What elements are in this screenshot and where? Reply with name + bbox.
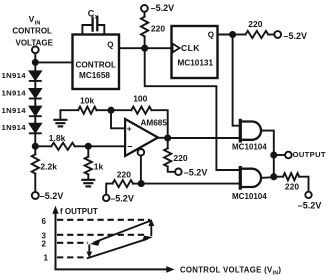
resistor R 220 MC10131 pullup bbox=[233, 31, 275, 38]
svg-text:CONTROL: CONTROL bbox=[12, 27, 52, 36]
label 220 Qbar pulldown bbox=[117, 170, 131, 180]
node output junction bbox=[271, 152, 276, 157]
wire output junction down to lower gate output junction bbox=[273, 155, 275, 177]
label -5.2V op-amp pulldown bbox=[184, 168, 208, 178]
label -5.2V bottom right bbox=[298, 200, 322, 210]
terminal OUTPUT bbox=[285, 152, 292, 159]
svg-text:f OUTPUT: f OUTPUT bbox=[60, 207, 98, 216]
graph x-axis arrowhead bbox=[166, 266, 174, 273]
label VIN bbox=[29, 14, 41, 26]
graph hysteresis right vertical bbox=[150, 223, 152, 237]
svg-text:–5.2V: –5.2V bbox=[151, 3, 175, 13]
node op-amp output junction bbox=[165, 135, 170, 140]
resistor R 2.2k bbox=[32, 146, 39, 192]
wire diode chain bottom to lower junction bbox=[34, 133, 36, 146]
AND gate U5 MC10104 lower bbox=[240, 168, 261, 189]
label CONTROL VOLTAGE input bbox=[12, 27, 53, 48]
label Cx bbox=[88, 8, 99, 20]
svg-text:CLK: CLK bbox=[181, 43, 200, 53]
node 1.8k / 1k / minus-input junction bbox=[86, 144, 91, 149]
svg-text:OUTPUT: OUTPUT bbox=[293, 150, 326, 159]
wire 10k left end down to ground bbox=[60, 110, 78, 119]
ground below 1k bbox=[82, 180, 94, 187]
diode D3 1N914 bbox=[30, 107, 41, 124]
wire VIN junction down to diode chain bbox=[34, 62, 36, 71]
graph dashed level 2 bbox=[57, 242, 88, 244]
resistor R 220 op-amp output pulldown bbox=[164, 138, 175, 172]
diode D4 1N914 bbox=[30, 124, 41, 134]
node CLK junction bbox=[142, 46, 147, 51]
svg-text:220: 220 bbox=[117, 170, 131, 180]
resistor R 220 gate output pulldown bbox=[274, 173, 309, 192]
label -5.2V Qbar pulldown bbox=[110, 193, 134, 203]
wire upper gate output bbox=[262, 131, 273, 152]
svg-text:Q: Q bbox=[107, 40, 113, 49]
svg-text:V: V bbox=[29, 14, 35, 24]
ground below 10k bbox=[54, 120, 66, 127]
label 1k bbox=[94, 162, 104, 172]
svg-text:1N914: 1N914 bbox=[2, 123, 27, 132]
wire CLK junction to MC10131 CLK input bbox=[145, 47, 172, 49]
op-amp U1 AM685 bbox=[125, 119, 158, 156]
svg-text:2.2k: 2.2k bbox=[40, 161, 57, 171]
label OUTPUT bbox=[293, 150, 326, 159]
graph dashed level 3 bbox=[57, 234, 146, 236]
svg-text:6: 6 bbox=[42, 217, 47, 226]
graph tick label 6 bbox=[42, 217, 47, 226]
svg-text:220: 220 bbox=[173, 153, 187, 163]
graph arrowhead up-right at lower diagonal end bbox=[142, 236, 153, 242]
label MC10104 lower bbox=[232, 192, 267, 201]
node lower gate output junction bbox=[271, 174, 276, 179]
svg-text:–5.2V: –5.2V bbox=[298, 200, 322, 210]
wire VIN junction to MC1658 input bbox=[35, 61, 72, 63]
svg-text:MC1658: MC1658 bbox=[79, 71, 110, 80]
terminal -5.2V top right bbox=[274, 31, 281, 38]
resistor R 220 Qbar pulldown bbox=[106, 180, 141, 195]
svg-text:–5.2V: –5.2V bbox=[40, 191, 64, 201]
svg-text:C: C bbox=[88, 8, 95, 18]
graph hysteresis lower diagonal bbox=[87, 239, 148, 259]
wire MC1658 clock signal to lower gate top input bbox=[145, 48, 239, 170]
graph hysteresis upper diagonal bbox=[94, 221, 152, 243]
wire op-amp output to junction bbox=[158, 137, 168, 139]
svg-text:Q: Q bbox=[208, 31, 214, 40]
op-amp complementary output pin circle bbox=[138, 149, 145, 156]
label -5.2V top right bbox=[284, 31, 308, 41]
label -5.2V below 2.2k bbox=[40, 191, 64, 201]
svg-text:MC10104: MC10104 bbox=[232, 143, 267, 152]
wire to OUTPUT terminal bbox=[274, 154, 285, 156]
svg-text:1N914: 1N914 bbox=[2, 71, 27, 80]
svg-text:MC10104: MC10104 bbox=[232, 192, 267, 201]
svg-text:+: + bbox=[127, 124, 132, 134]
svg-text:1N914: 1N914 bbox=[2, 106, 27, 115]
diode D1 1N914 bbox=[30, 71, 41, 89]
graph y-axis arrowhead bbox=[52, 206, 58, 214]
label Q MC1658 bbox=[107, 40, 113, 49]
wire op-amp Qbar pin down bbox=[140, 156, 142, 184]
terminal -5.2V below 2.2k bbox=[32, 192, 39, 199]
svg-text:1: 1 bbox=[44, 253, 49, 262]
terminal -5.2V op-amp output pulldown bbox=[175, 169, 182, 176]
svg-text:10k: 10k bbox=[80, 96, 94, 106]
svg-text:VOLTAGE: VOLTAGE bbox=[16, 38, 54, 47]
node VIN input terminal bbox=[32, 46, 39, 53]
svg-text:1k: 1k bbox=[94, 162, 104, 172]
svg-text:MC10131: MC10131 bbox=[178, 58, 214, 67]
label CONTROL VOLTAGE (VIN) bbox=[180, 266, 281, 277]
svg-text:100: 100 bbox=[133, 94, 147, 104]
terminal -5.2V top bbox=[141, 5, 148, 12]
node Qbar junction bbox=[139, 181, 144, 186]
svg-text:2: 2 bbox=[42, 239, 47, 248]
svg-text:AM685: AM685 bbox=[141, 119, 168, 128]
graph dashed level 6 bbox=[57, 219, 150, 221]
label 220 top bbox=[151, 23, 165, 33]
label AM685 bbox=[141, 119, 168, 128]
resistor R 1k bbox=[85, 146, 92, 179]
graph dashed level 1 bbox=[57, 256, 84, 258]
node VIN junction bbox=[33, 60, 38, 65]
labels 1N914 diodes bbox=[2, 71, 27, 80]
wire MC10131 Q to upper gate top input bbox=[233, 35, 239, 126]
graph tick label 3 bbox=[42, 231, 47, 240]
wire op-amp output to upper gate input (crosses vertical) bbox=[168, 137, 239, 139]
graph tick label 1 bbox=[44, 253, 49, 262]
svg-text:1.8k: 1.8k bbox=[49, 133, 66, 143]
node plus-input / feedback junction bbox=[108, 108, 113, 113]
graph tick label 2 bbox=[42, 239, 47, 248]
wire Qbar junction to lower gate bottom input bbox=[141, 183, 239, 185]
AND gate U4 MC10104 upper bbox=[240, 120, 261, 140]
label -5.2V top bbox=[151, 3, 175, 13]
graph arrowhead up at right vertical top bbox=[148, 219, 154, 226]
svg-text:IN: IN bbox=[35, 20, 41, 26]
graph hysteresis left vertical bbox=[88, 245, 90, 255]
capacitor Cx bbox=[82, 17, 104, 34]
svg-text:220: 220 bbox=[151, 23, 165, 33]
wire junction to op-amp minus input bbox=[88, 145, 125, 147]
label 100 bbox=[133, 94, 147, 104]
svg-text:CONTROL: CONTROL bbox=[76, 61, 116, 70]
graph axes f OUTPUT vs control voltage bbox=[56, 210, 169, 269]
label MC10131 bbox=[178, 58, 214, 67]
diode D2 1N914 bbox=[30, 89, 41, 107]
resistor R 100 feedback bbox=[111, 107, 168, 138]
label CONTROL MC1658 bbox=[76, 61, 116, 80]
resistor R 10k bbox=[78, 107, 111, 114]
wire VIN terminal to junction bbox=[34, 53, 36, 60]
label 1.8k bbox=[49, 133, 66, 143]
svg-text:–5.2V: –5.2V bbox=[284, 31, 308, 41]
svg-text:–5.2V: –5.2V bbox=[110, 193, 134, 203]
label CLK bbox=[181, 43, 200, 53]
wire MC10131 Q output to pullup junction bbox=[218, 34, 233, 36]
label f OUTPUT bbox=[60, 207, 98, 216]
label 220 bottom right bbox=[285, 182, 299, 192]
label MC10104 upper bbox=[232, 143, 267, 152]
svg-text:220: 220 bbox=[285, 182, 299, 192]
svg-text:–5.2V: –5.2V bbox=[184, 168, 208, 178]
wire MC1658 Q output to CLK junction bbox=[119, 47, 145, 49]
svg-text:−: − bbox=[127, 142, 132, 152]
graph arrowhead down at left vertical bottom bbox=[87, 252, 93, 259]
MC10131 CLK input arrow bbox=[173, 44, 180, 53]
terminal -5.2V Qbar pulldown bbox=[103, 195, 109, 201]
node MC10131 Q junction bbox=[230, 32, 235, 37]
terminal -5.2V bottom right bbox=[305, 192, 311, 198]
wire junction down to op-amp plus input bbox=[111, 110, 125, 128]
resistor R 220 MC1658 pullup bbox=[141, 12, 148, 48]
wire lower gate output bbox=[262, 176, 273, 179]
node diode chain / 1.8k / 2.2k junction bbox=[33, 144, 38, 149]
label 2.2k bbox=[40, 161, 57, 171]
label Q MC10131 bbox=[208, 31, 214, 40]
VCO U2 MC1658 box bbox=[73, 35, 120, 90]
svg-text:220: 220 bbox=[248, 19, 262, 29]
graph arrowhead down-left at upper diagonal end bbox=[90, 240, 101, 246]
resistor R 1.8k bbox=[35, 143, 88, 150]
label 10k bbox=[80, 96, 94, 106]
label 220 op-amp pulldown bbox=[173, 153, 187, 163]
label 220 top right bbox=[248, 19, 262, 29]
flip-flop U3 MC10131 box bbox=[172, 26, 218, 78]
svg-text:1N914: 1N914 bbox=[2, 88, 27, 97]
